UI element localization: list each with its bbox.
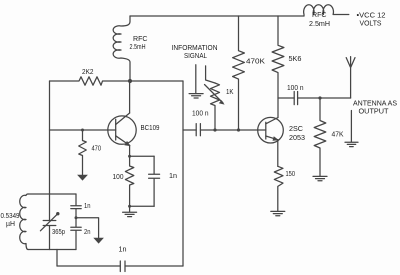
svg-text:100 n: 100 n [287, 83, 304, 92]
wire top rail [130, 15, 304, 17]
ground earth under 150 [271, 211, 285, 215]
node 470K bottom [237, 128, 240, 131]
antenna symbol [346, 57, 355, 98]
wire emitter Q2 down [277, 140, 279, 167]
wire left vertical [49, 81, 51, 194]
resistor R 470 [79, 130, 87, 175]
resistor R 2K2 [50, 77, 131, 85]
svg-text:BC109: BC109 [141, 123, 160, 132]
wire junction to long vertical [130, 80, 183, 82]
resistor R 47K [314, 98, 326, 176]
svg-text:2.5mH: 2.5mH [309, 19, 330, 28]
svg-text:150: 150 [286, 169, 296, 178]
capacitor C 1n coupling bottom [120, 261, 125, 272]
ground earth under emitter network [123, 206, 137, 216]
svg-text:2.5mH: 2.5mH [130, 42, 146, 51]
wire long vertical feedback line [182, 81, 184, 266]
svg-text:1K: 1K [226, 87, 234, 96]
ground earth antenna [345, 142, 358, 146]
svg-text:1n: 1n [84, 201, 91, 210]
resistor R 150 [274, 166, 283, 211]
information signal input terminal right [206, 66, 215, 83]
svg-text:2n: 2n [84, 227, 91, 236]
svg-text:2SC: 2SC [289, 124, 304, 133]
wire collector BC109 up [129, 81, 131, 113]
node junction collector/RFC1/2K2 [128, 79, 132, 83]
node emitter branch [128, 155, 131, 158]
variable capacitor C 365p [43, 194, 56, 250]
inductor RFC2 2.5mH (horizontal coil) [304, 5, 349, 16]
inductor RFC1 2.5mH (vertical coil) [113, 16, 130, 81]
svg-text:470K: 470K [246, 57, 265, 66]
ground arrow under 470 [77, 175, 88, 181]
wire antenna ground stub [350, 111, 352, 142]
resistor R 5K6 [272, 16, 284, 118]
inductor L 0.5349uH tank coil [20, 194, 28, 250]
node pot bottom [213, 128, 216, 131]
tank circuit bottom wire [28, 249, 76, 251]
transistor Q2 2SC2053 [258, 117, 284, 143]
svg-text:470: 470 [92, 144, 102, 153]
svg-text:1n: 1n [119, 245, 127, 254]
capacitor C 1n emitter bypass [149, 156, 160, 206]
potentiometer wiper arrow [205, 85, 224, 104]
svg-text:100 n: 100 n [192, 109, 209, 118]
variable capacitor arrow [40, 214, 57, 231]
capacitor C 1n tank top [71, 194, 81, 218]
resistor R 470K [233, 16, 245, 130]
svg-text:2053: 2053 [289, 133, 305, 142]
wire tank midpoint to ground [76, 218, 99, 238]
ground earth info signal [189, 94, 203, 98]
svg-text:2K2: 2K2 [82, 67, 94, 76]
tank circuit top wire [28, 193, 76, 195]
wire base BC109 [50, 129, 116, 131]
capacitor C 100n modulation [196, 124, 200, 136]
wire collector 100n junction [278, 97, 294, 99]
svg-text:1n: 1n [169, 171, 177, 180]
svg-text:RFC: RFC [312, 10, 327, 19]
node 470 branch [81, 129, 84, 132]
ground earth under 47K [313, 176, 327, 180]
wire bottom rail [57, 265, 120, 267]
svg-text:µH: µH [6, 219, 15, 228]
svg-text:SIGNAL: SIGNAL [184, 51, 207, 60]
svg-text:100: 100 [113, 172, 124, 181]
wire emitter BC109 down [129, 145, 131, 156]
wire 100n branch [183, 129, 196, 131]
resistor R 100 [125, 156, 133, 206]
wire emitter network bottom [130, 205, 155, 207]
svg-text:5K6: 5K6 [289, 54, 302, 63]
transistor Q1 BC109 [108, 116, 136, 144]
svg-text:VOLTS: VOLTS [360, 19, 382, 28]
svg-text:365p: 365p [52, 227, 65, 236]
node tank cap midpoint [75, 216, 78, 219]
potentiometer R 1K [211, 83, 220, 130]
svg-text:47K: 47K [332, 130, 344, 139]
capacitor C 2n tank bottom [71, 218, 81, 250]
node 47K branch [318, 96, 321, 99]
wire tank bottom drop [56, 250, 58, 267]
wire emitter to bypass cap [130, 155, 155, 157]
svg-text:OUTPUT: OUTPUT [359, 107, 389, 116]
ground arrow tank [93, 238, 104, 244]
capacitor C 100n output [294, 92, 297, 105]
information signal input terminal left [195, 65, 197, 93]
